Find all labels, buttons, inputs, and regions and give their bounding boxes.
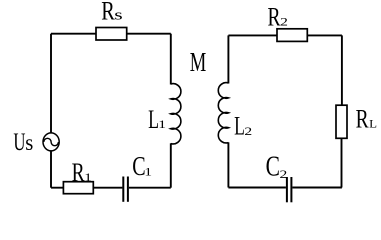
svg-text:2: 2: [244, 125, 252, 138]
wire right-loop left lower: [227, 142, 229, 187]
svg-text:1: 1: [84, 172, 92, 185]
label C2: [266, 152, 288, 182]
capacitor C2: [287, 177, 292, 202]
resistor Rs: [96, 28, 127, 41]
label R2: [267, 3, 287, 31]
resistor R1: [63, 182, 93, 194]
resistor R2: [277, 29, 307, 42]
svg-text:M: M: [190, 48, 207, 78]
resistor RL: [336, 105, 347, 138]
svg-text:U: U: [13, 127, 25, 155]
wire right-loop bottom right: [292, 187, 342, 189]
svg-text:C: C: [266, 152, 280, 182]
label R1: [72, 158, 92, 186]
label Us: [13, 127, 33, 155]
wire right-loop right upper: [341, 35, 343, 105]
svg-text:2: 2: [280, 169, 288, 182]
label M: [190, 48, 207, 78]
source Us: [43, 133, 59, 151]
wire right-loop right lower: [341, 138, 343, 187]
label Rs: [101, 0, 123, 26]
svg-text:L: L: [369, 117, 377, 130]
svg-text:s: s: [114, 7, 122, 24]
wire left-loop right lower: [170, 143, 172, 187]
label L1: [148, 105, 166, 134]
wire right-loop left upper: [227, 35, 229, 83]
svg-text:s: s: [25, 130, 33, 155]
svg-text:L: L: [234, 111, 245, 140]
wire left-loop left lower: [50, 150, 52, 187]
label L2: [234, 111, 252, 140]
wire left-loop top: [51, 33, 171, 35]
svg-text:1: 1: [158, 119, 166, 132]
wire right-loop bottom left: [228, 187, 286, 189]
svg-text:1: 1: [144, 166, 152, 179]
wire left-loop left upper: [50, 34, 52, 134]
label RL: [356, 105, 377, 133]
svg-text:2: 2: [280, 16, 288, 29]
capacitor C1: [123, 177, 128, 202]
inductor L2: [218, 83, 228, 143]
svg-text:R: R: [267, 3, 281, 31]
svg-text:R: R: [101, 0, 115, 26]
wire left-loop bottom right: [129, 187, 171, 189]
wire right-loop top: [228, 34, 342, 36]
wire left-loop right upper: [170, 34, 172, 85]
label C1: [132, 152, 152, 182]
wire left-loop bottom left: [51, 187, 122, 189]
inductor L1: [171, 84, 181, 144]
svg-text:R: R: [356, 105, 370, 133]
